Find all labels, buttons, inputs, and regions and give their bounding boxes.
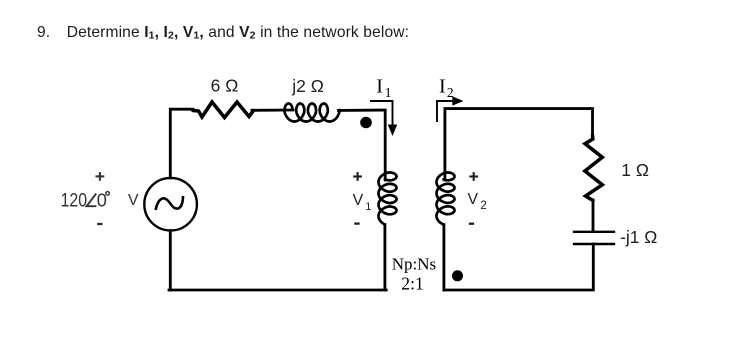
svg-text:1: 1 [385, 85, 392, 100]
svg-text:j2 Ω: j2 Ω [291, 76, 324, 96]
capacitor C1 bottom plate [574, 243, 614, 245]
wire resistor to inductor [252, 109, 293, 112]
svg-text:2: 2 [480, 200, 486, 212]
wire capacitor to bottom corner [444, 244, 593, 290]
label source minus [97, 223, 103, 225]
label source plus [96, 172, 105, 181]
degree circle [106, 192, 110, 196]
current arrow I1 [370, 101, 396, 134]
inductor L1 j2 ohm [285, 104, 340, 122]
wire top-left with corner [170, 109, 193, 178]
voltage source sine wave [156, 197, 183, 209]
transformer primary coil [379, 173, 397, 225]
polarity dot primary [360, 117, 372, 129]
resistor R1 6 ohm [193, 102, 254, 118]
wire inductor to corner and primary vertical top [339, 110, 386, 180]
transformer secondary coil [437, 173, 455, 225]
svg-text:2:1: 2:1 [401, 274, 424, 294]
svg-text:1 Ω: 1 Ω [621, 160, 649, 180]
svg-text:I: I [376, 76, 383, 98]
wire resistor to capacitor [592, 200, 595, 231]
label V2 minus [469, 223, 474, 225]
wire bottom left circuit [169, 289, 386, 292]
svg-text:V: V [353, 192, 364, 209]
capacitor C1 top plate [574, 231, 614, 233]
resistor R2 1 ohm vertical [585, 136, 602, 201]
wire secondary vertical bottom [442, 225, 445, 291]
label V2 [468, 191, 487, 212]
voltage source circle [144, 178, 197, 231]
label V1 [353, 192, 372, 213]
label V1 minus [354, 222, 360, 224]
svg-text:V: V [468, 191, 479, 208]
svg-text:-j1 Ω: -j1 Ω [620, 227, 657, 247]
angle symbol [87, 194, 97, 207]
current arrow I2 [437, 98, 461, 122]
label V1 plus [353, 172, 362, 181]
svg-text:6 Ω: 6 Ω [211, 76, 239, 96]
svg-text:V: V [128, 192, 139, 209]
label V2 plus [469, 172, 478, 181]
label I1 [376, 76, 391, 101]
svg-text:1: 1 [365, 201, 371, 213]
wire primary vertical bottom [383, 225, 386, 291]
wire source bottom to corner [169, 231, 172, 291]
svg-text:Np:Ns: Np:Ns [392, 254, 436, 273]
svg-text:I: I [439, 76, 446, 98]
svg-text:2: 2 [447, 85, 454, 100]
label I2 [439, 76, 454, 101]
wire secondary vertical top with corner [445, 109, 593, 180]
title [37, 24, 409, 42]
svg-text:120: 120 [61, 190, 88, 211]
polarity dot secondary [452, 270, 463, 281]
